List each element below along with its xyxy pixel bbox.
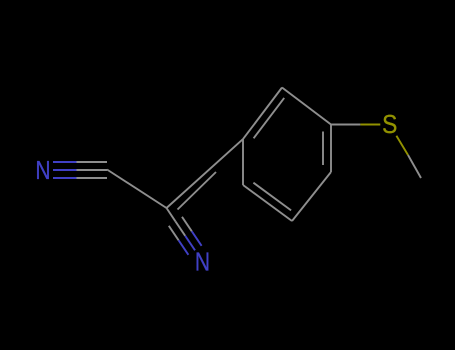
- wire C1 to Cm: [107, 170, 167, 209]
- benzene ring edge B-LB: [243, 185, 292, 221]
- bond ring Cr to S, gray half: [331, 124, 360, 126]
- benzene ring edge Cr-LR: [330, 125, 332, 173]
- aromatic inner line on edge B-LB: [253, 183, 291, 211]
- aromatic inner line on edge Cr-LR: [322, 132, 324, 166]
- nitrile C2#N2 triple bond, blue half near N2: [179, 231, 202, 255]
- nitrile C1#N1 triple bond, gray half near C1: [77, 162, 108, 178]
- wire Cm to C2: [167, 208, 176, 221]
- aromatic inner line on edge I-T: [254, 98, 285, 138]
- benzene ring edge I-T: [243, 88, 282, 140]
- benzene ring edge T-Cr: [282, 88, 331, 125]
- bond ring Cr to S, olive half: [360, 124, 380, 126]
- nitrile C1#N1 triple bond, blue half near N: [53, 162, 77, 178]
- bond S to CH3, olive half: [396, 136, 408, 155]
- svg-text:S: S: [382, 109, 397, 139]
- double bond Cm=Cb main line continuing to ring ipso I: [167, 139, 244, 208]
- svg-text:N: N: [35, 155, 50, 185]
- benzene ring edge LB-I: [242, 139, 244, 185]
- benzene ring edge LR-B: [292, 172, 331, 221]
- bond S to CH3, gray half: [408, 155, 421, 178]
- double bond Cm=Cb second line: [178, 172, 217, 210]
- nitrile C2#N2 triple bond, gray half near C2: [169, 217, 192, 241]
- svg-text:N: N: [195, 247, 210, 277]
